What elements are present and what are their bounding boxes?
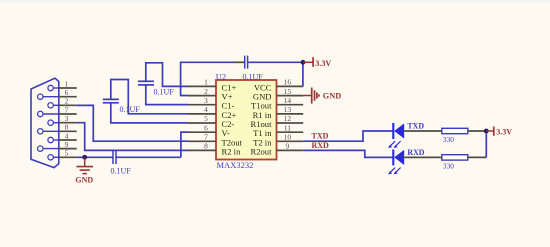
svg-text:TXD: TXD [312,132,329,141]
svg-text:13: 13 [284,105,292,114]
svg-text:9: 9 [286,142,290,151]
svg-text:RXD: RXD [312,141,330,150]
svg-text:330: 330 [443,161,454,170]
svg-text:12: 12 [284,114,292,123]
svg-text:TXD: TXD [407,122,424,131]
svg-text:5: 5 [65,149,69,158]
svg-text:R2out: R2out [250,146,272,156]
svg-text:GND: GND [323,92,341,101]
svg-text:9: 9 [65,140,69,149]
svg-text:3: 3 [204,96,208,105]
svg-text:0.1UF: 0.1UF [243,72,264,81]
svg-text:R2 in: R2 in [222,146,242,156]
svg-text:MAX3232: MAX3232 [217,160,254,170]
svg-text:6: 6 [204,123,208,132]
svg-text:8: 8 [204,142,208,151]
svg-text:0.1UF: 0.1UF [154,87,175,96]
svg-text:0.1UF: 0.1UF [120,105,141,114]
svg-text:3.3V: 3.3V [315,59,331,68]
svg-text:1: 1 [65,79,69,88]
svg-text:14: 14 [284,96,292,105]
svg-text:2: 2 [65,97,69,106]
svg-text:1: 1 [204,78,208,87]
svg-text:8: 8 [65,123,69,132]
svg-text:7: 7 [204,133,208,142]
svg-text:GND: GND [75,175,93,184]
svg-text:RXD: RXD [407,148,424,157]
svg-text:0.1UF: 0.1UF [111,166,132,175]
svg-text:11: 11 [284,123,291,132]
svg-text:10: 10 [284,133,292,142]
svg-text:15: 15 [284,87,292,96]
svg-text:U2: U2 [216,71,226,81]
svg-text:7: 7 [65,105,69,114]
svg-text:16: 16 [284,78,292,87]
svg-text:330: 330 [443,135,454,144]
svg-text:4: 4 [204,105,208,114]
svg-text:3.3V: 3.3V [496,127,512,136]
svg-text:5: 5 [204,114,208,123]
svg-text:2: 2 [204,87,208,96]
